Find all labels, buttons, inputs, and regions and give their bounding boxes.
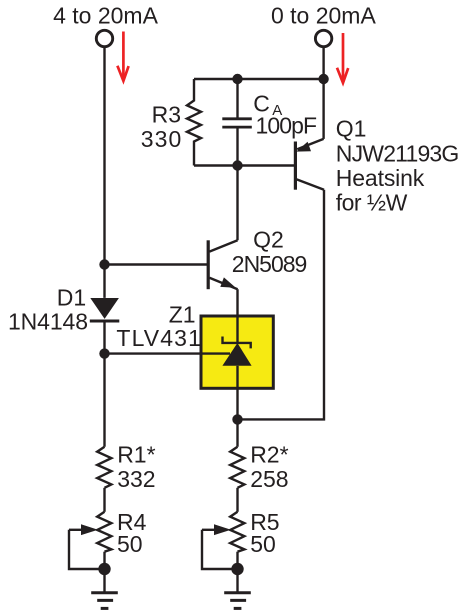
svg-text:1N4148: 1N4148: [8, 309, 88, 335]
svg-text:332: 332: [117, 466, 155, 492]
wire Q2 emitter vertical through Z1: [236, 289, 238, 447]
current arrow red 1: [117, 32, 128, 81]
resistor R2: [230, 447, 244, 488]
svg-text:D1: D1: [57, 284, 86, 310]
wire Q2 base: [105, 263, 208, 265]
potentiometer R5: [202, 512, 244, 569]
svg-text:R1*: R1*: [117, 441, 155, 467]
svg-text:R2*: R2*: [250, 441, 288, 467]
resistor R3: [187, 79, 201, 166]
wire Q1 collector down right side: [238, 190, 325, 420]
svg-text:NJW21193G: NJW21193G: [336, 140, 460, 166]
capacitor CA: [222, 79, 252, 166]
svg-text:TLV431: TLV431: [116, 325, 201, 351]
wire top rail: [194, 78, 324, 80]
svg-text:Z1: Z1: [169, 302, 196, 328]
svg-text:0 to 20mA: 0 to 20mA: [271, 3, 376, 29]
potentiometer R4: [69, 512, 111, 569]
svg-text:4 to 20mA: 4 to 20mA: [53, 3, 158, 29]
ground left: [91, 593, 118, 609]
wire TLV431 ref: [105, 352, 231, 354]
wire R4 to ground: [103, 552, 105, 592]
wire D1 cathode down to R1: [103, 320, 105, 446]
svg-text:R3: R3: [152, 102, 181, 128]
node bottom rail junction: [232, 160, 242, 170]
wire left input vertical: [103, 48, 105, 298]
svg-text:Q1: Q1: [336, 116, 367, 142]
transistor Q2: [208, 240, 237, 289]
svg-text:for ½W: for ½W: [336, 189, 408, 215]
wire middle vertical CA to Q2 collector: [236, 166, 238, 241]
wire R1 to R4: [103, 488, 105, 512]
node R4 wiper junction: [98, 563, 110, 575]
svg-text:2N5089: 2N5089: [232, 251, 307, 277]
terminal T1 4-20mA: [96, 30, 112, 46]
transistor Q1: [295, 79, 324, 190]
resistor R1: [97, 447, 111, 488]
svg-text:330: 330: [141, 126, 182, 152]
node Q2 base / D1 junction: [99, 259, 109, 269]
svg-text:50: 50: [117, 531, 143, 557]
svg-text:Q2: Q2: [253, 227, 284, 253]
wire R5 to ground: [236, 552, 238, 592]
svg-text:258: 258: [250, 466, 288, 492]
svg-text:100pF: 100pF: [256, 113, 318, 139]
wire right input vertical: [322, 48, 324, 80]
shunt regulator Z1 TLV431 (yellow box): [201, 315, 273, 389]
wire R2 to R5: [236, 488, 238, 512]
node R5 wiper junction: [231, 563, 243, 575]
terminal T2 0-20mA: [315, 30, 331, 46]
wire bottom rail (Q1 base): [194, 164, 294, 166]
node top rail / CA junction: [232, 74, 242, 84]
node top rail / input junction: [318, 74, 328, 84]
node TLV ref junction: [99, 348, 109, 358]
svg-text:Heatsink: Heatsink: [336, 165, 425, 191]
ground right: [224, 593, 251, 609]
diode D1: [90, 298, 120, 321]
svg-text:50: 50: [250, 531, 276, 557]
label CA: [253, 91, 282, 119]
node Q1 collector / R2 junction: [232, 414, 242, 424]
current arrow red 2: [337, 33, 348, 83]
